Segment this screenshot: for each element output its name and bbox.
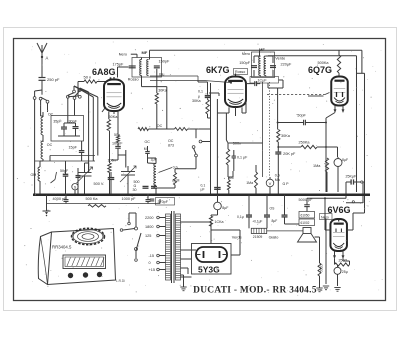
label Rosso (boxed tag) [234, 69, 248, 75]
T3 secondary winding [176, 214, 181, 280]
band switch S1b contacts [66, 95, 69, 98]
capacitor 0,1uF (pot) [232, 155, 236, 157]
variable capacitor CV2 (tuning gang b) [121, 171, 135, 173]
cabinet knobs [68, 273, 73, 278]
wire 6A8G pins [108, 112, 110, 119]
svg-text:30Ka: 30Ka [281, 134, 291, 138]
capacitor 20K pF [275, 151, 281, 153]
wire 6Q7G pins with arrows [334, 105, 336, 111]
wire 6A8G plate to T1 [117, 67, 119, 78]
svg-text:Nero: Nero [242, 52, 250, 56]
wire lower bus [46, 203, 160, 205]
svg-text:Nero: Nero [119, 53, 127, 57]
antenna [37, 43, 47, 53]
svg-text:DUCATI - MOD.- RR 3404.5 -: DUCATI - MOD.- RR 3404.5 - [193, 285, 323, 295]
ground (transformer centre tap) [181, 274, 184, 276]
svg-text:25μ: 25μ [342, 270, 348, 274]
svg-text:61050: 61050 [301, 214, 310, 218]
svg-text:50Ka: 50Ka [109, 115, 119, 119]
svg-text:+15: +15 [149, 268, 155, 272]
svg-text:Giallo: Giallo [269, 236, 279, 240]
svg-text:6K7G: 6K7G [206, 65, 230, 75]
antenna coil L1 (OC) [41, 117, 43, 120]
svg-text:OC: OC [157, 124, 163, 128]
svg-text:1CKa: 1CKa [215, 220, 224, 224]
ground (speaker) [319, 276, 321, 288]
tube V1 6A8G top cap stub [113, 77, 115, 80]
radio cabinet outline [48, 229, 116, 285]
svg-text:0,5: 0,5 [275, 174, 280, 178]
svg-text:250Ka: 250Ka [299, 141, 311, 145]
svg-text:30Ka: 30Ka [192, 99, 202, 103]
ground (main left) [46, 195, 48, 211]
wire osc top link [149, 128, 175, 130]
svg-text:A: A [46, 56, 49, 61]
wire grid cap lead [78, 81, 84, 83]
capacitor pair at bus (osc) [143, 185, 149, 187]
wire 6V6G plate exit [347, 229, 353, 231]
wire T1 B+ stub [149, 50, 151, 59]
svg-text:20K pF: 20K pF [283, 152, 296, 156]
tube V2 top cap stub [235, 74, 237, 77]
svg-text:50 n: 50 n [84, 75, 92, 80]
wire T2 secondary out [267, 83, 269, 88]
svg-text:OC: OC [168, 139, 174, 143]
svg-text:500 Ka: 500 Ka [86, 197, 99, 201]
wire switch to riser [202, 141, 211, 143]
svg-text:1Ma: 1Ma [246, 181, 253, 185]
svg-text:Rosso: Rosso [235, 70, 245, 74]
oscillator coupling coil zigzag B [175, 128, 188, 131]
wire antenna down [41, 57, 43, 76]
cabinet emblem (top grille) [73, 230, 103, 244]
wire output transformer to speaker [267, 230, 303, 232]
wire T1 secondary to 6K7G grid [150, 75, 198, 77]
label Nero (boxed) [320, 214, 333, 220]
svg-text:Ma: Ma [275, 178, 280, 182]
trimmer box [51, 116, 84, 142]
dashed AVC line [267, 94, 325, 96]
wire mains entry [128, 213, 130, 222]
svg-text:21509: 21509 [253, 235, 263, 239]
speaker cone [303, 228, 311, 234]
tube V4 grid stub [338, 219, 340, 222]
tube V2 6K7G envelope [225, 77, 246, 108]
svg-text:Ω P: Ω P [283, 182, 290, 186]
band switch S1a contacts [33, 97, 36, 100]
wire osc bottom [155, 188, 157, 194]
svg-text:0: 0 [149, 261, 151, 265]
svg-text:Verde: Verde [232, 236, 242, 240]
svg-text:35pF: 35pF [53, 119, 62, 123]
electrolytic 8uF [334, 159, 342, 167]
svg-text:Rosso: Rosso [128, 78, 139, 82]
T3 primary winding [166, 214, 171, 280]
power transformer T3 core [171, 211, 173, 283]
wire top rail 2 [268, 55, 357, 57]
svg-text:1Ma: 1Ma [313, 164, 321, 168]
electrolytic 8uF (first filter) [214, 202, 222, 210]
svg-text:RR3404.5: RR3404.5 [52, 245, 72, 250]
svg-text:873: 873 [168, 144, 174, 148]
wire 6V6G pins with arrows [334, 252, 336, 258]
capacitor at bus (riser pair) [214, 187, 221, 189]
wire osc grid link [118, 154, 126, 156]
svg-text:0,1 μF: 0,1 μF [237, 155, 248, 159]
power switch S4 [135, 227, 138, 230]
speaker field coil [299, 212, 315, 219]
tube V1 6A8G envelope [104, 80, 124, 112]
svg-text:1000 pF: 1000 pF [122, 197, 137, 201]
antenna coil L2 (OC) [41, 141, 43, 144]
svg-text:175pF: 175pF [113, 62, 124, 66]
ground bus (heavy) [33, 194, 370, 197]
wire 6Q7G cathode drop [325, 118, 327, 192]
tube V3 6Q7G envelope [331, 77, 348, 106]
svg-text:500Ω: 500Ω [320, 264, 324, 272]
svg-text:8μF: 8μF [342, 158, 348, 162]
svg-text:0,1: 0,1 [198, 90, 203, 94]
T2 base box with 10uF [250, 77, 279, 84]
wire B+ run [211, 229, 240, 231]
tube V4 6V6G envelope [330, 219, 347, 251]
wire lower links [50, 155, 95, 157]
svg-text:OC: OC [145, 140, 151, 144]
svg-text:8μF: 8μF [222, 206, 228, 210]
svg-text:M: M [144, 147, 147, 151]
T1 primary winding [140, 60, 142, 62]
wire switch arms [41, 90, 43, 95]
dashed gang coupling lines [262, 82, 264, 177]
svg-text:5000 pF: 5000 pF [299, 198, 314, 202]
wire right column 3 [363, 181, 365, 183]
T2 secondary winding [264, 56, 266, 58]
T2 primary winding [259, 56, 261, 58]
antenna coil L3 (OM) [38, 167, 40, 170]
svg-text:220μF: 220μF [281, 62, 293, 66]
svg-text:μF: μF [201, 188, 205, 192]
wire top rail 1 [150, 49, 362, 51]
tube V3 diode plates [336, 92, 338, 97]
scan speckle noise [134, 78, 137, 81]
svg-text:250 pF: 250 pF [47, 77, 60, 82]
wire left verticals to bus [34, 99, 36, 193]
svg-text:150pF: 150pF [159, 59, 170, 63]
capacitor 370 pF (boxed) [156, 198, 175, 206]
resistor 10M [174, 173, 177, 186]
svg-text:0,1μ: 0,1μ [237, 215, 244, 219]
T1 secondary winding [147, 60, 149, 62]
schematic border frame [14, 39, 386, 301]
svg-text:'50pF: '50pF [297, 114, 307, 118]
capacitor 250 pF (antenna series) [39, 77, 46, 79]
capacitor 6K7G plate decouple [254, 81, 256, 86]
node S (circled) [72, 184, 78, 190]
svg-text:500 V.: 500 V. [94, 182, 105, 186]
svg-text:15pF: 15pF [69, 146, 78, 150]
output transformer T4 [251, 228, 266, 233]
coil tap pointer [159, 168, 173, 173]
svg-text:500Ka: 500Ka [318, 61, 330, 65]
dial hatching [67, 258, 71, 267]
5Y3G filaments [203, 251, 205, 258]
T3 tap terminals (trim) [157, 254, 160, 257]
svg-text:(0 M: (0 M [172, 178, 179, 182]
svg-text:OM: OM [31, 173, 37, 177]
wire 6K7G pins [228, 107, 230, 113]
svg-text:125: 125 [145, 234, 151, 238]
cabinet dial window [63, 255, 106, 269]
variable capacitor CV1 (tuning gang a) [78, 172, 92, 174]
svg-text:MF: MF [142, 50, 148, 55]
capacitor 0,1uF (fixed, left) [108, 177, 115, 179]
wire switch risers [88, 92, 90, 172]
svg-text:50pF: 50pF [60, 169, 69, 173]
wire center risers [210, 83, 212, 194]
svg-text:-15: -15 [149, 254, 155, 258]
IF transformer T2 box [252, 52, 275, 78]
wire grid return [325, 219, 327, 285]
svg-text:OC: OC [47, 143, 53, 147]
svg-text:2200: 2200 [145, 216, 153, 220]
svg-text:OS: OS [270, 206, 276, 210]
rectifier box [192, 244, 232, 275]
wire coil links [40, 160, 43, 162]
wire CV feeds [84, 163, 86, 167]
svg-text:150pF: 150pF [239, 61, 250, 65]
resistor field bleeder [318, 263, 321, 276]
wire speaker return [315, 236, 320, 238]
svg-text:+0,1μF: +0,1μF [252, 220, 262, 224]
svg-text:25KμF: 25KμF [346, 175, 357, 179]
svg-text:L.R.Di: L.R.Di [116, 279, 125, 283]
svg-text:8μF: 8μF [272, 219, 278, 223]
electrolytic 25uF [334, 267, 341, 274]
svg-text:Verde: Verde [275, 56, 285, 60]
oscillator coupling coil zigzag A [138, 128, 149, 131]
ground (cathode) [334, 287, 340, 289]
wire trimmer common [58, 135, 80, 137]
svg-text:1800: 1800 [145, 225, 153, 229]
IF transformer T1 box [132, 58, 162, 78]
wire transformer to 5Y3G [181, 249, 197, 251]
wire T2 stubs [259, 50, 261, 56]
svg-text:4000 pF: 4000 pF [53, 197, 68, 201]
svg-text:6Q7G: 6Q7G [308, 65, 332, 75]
pilot lamp V (circled) [266, 179, 274, 187]
svg-text:5Y3G: 5Y3G [198, 265, 220, 275]
svg-text:61002: 61002 [301, 221, 310, 225]
wire 6V6G grid entry [325, 229, 331, 231]
svg-text:S: S [74, 186, 77, 190]
svg-text:6A8G: 6A8G [92, 67, 116, 77]
wire 6V6G grid network [362, 182, 364, 203]
oscillator coil L6 [154, 164, 156, 167]
svg-text:30: 30 [133, 188, 137, 192]
svg-text:100n: 100n [108, 159, 116, 163]
svg-text:370pF: 370pF [158, 200, 169, 204]
svg-text:V: V [269, 181, 272, 186]
switch S3 contacts [192, 146, 195, 149]
tube V5 5Y3G envelope (horizontal) [196, 247, 227, 262]
T3 tap terminals (mains) [157, 216, 160, 219]
